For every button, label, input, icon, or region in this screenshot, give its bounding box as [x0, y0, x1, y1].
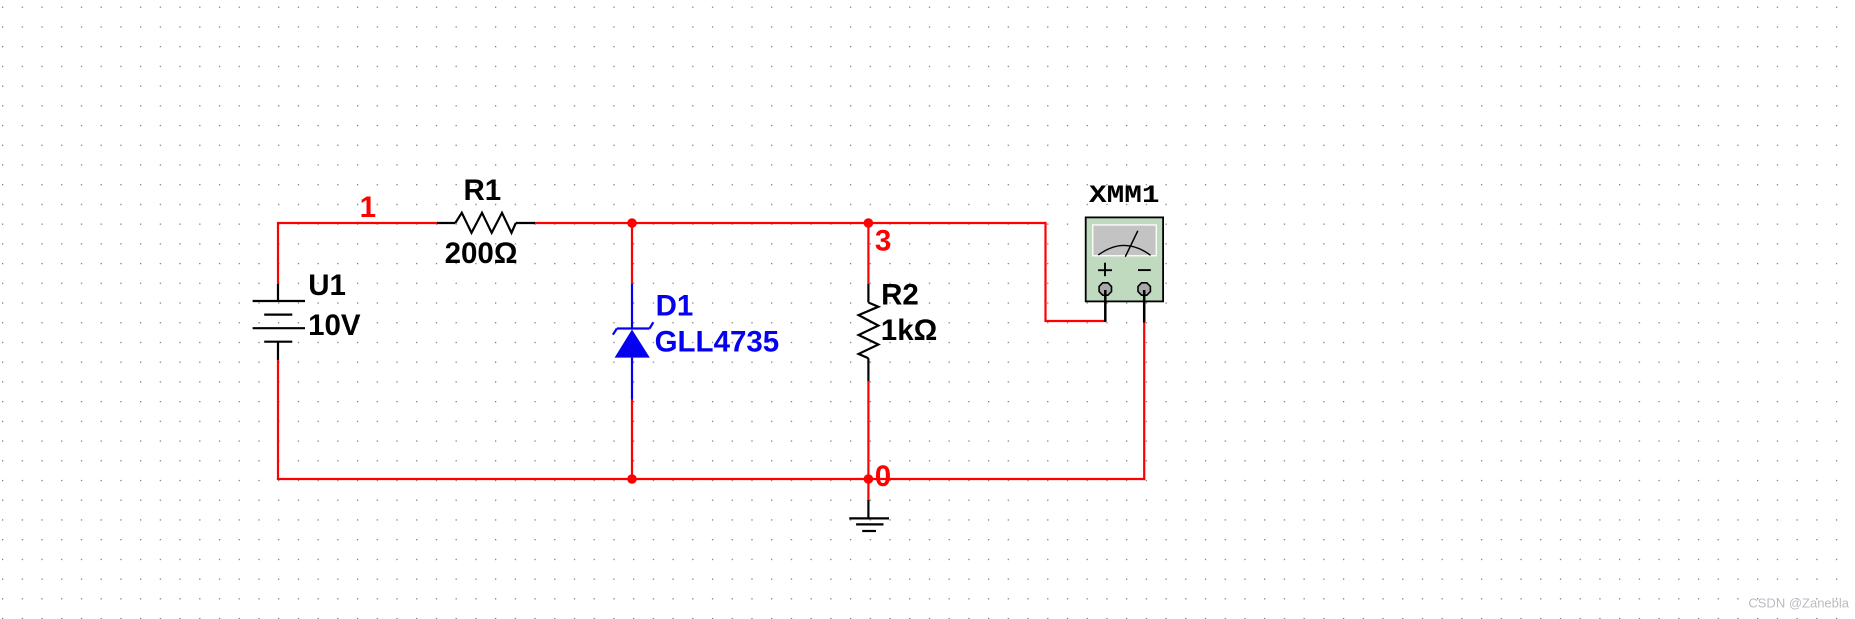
XMM1 minus pin stub	[1143, 290, 1146, 323]
R2 top lead	[867, 284, 869, 303]
battery plate long top	[253, 300, 305, 302]
ground bar 3	[862, 530, 876, 532]
battery bottom pin	[277, 342, 279, 360]
XMM1 plus terminal	[1099, 283, 1150, 295]
svg-text:200Ω: 200Ω	[445, 237, 518, 270]
XMM1 plus sign	[1098, 263, 1112, 277]
D1 top pin blue	[631, 284, 633, 329]
D1 cathode bar	[617, 327, 650, 329]
battery plate short bottom	[264, 341, 292, 343]
multimeter XMM1 body	[1086, 217, 1163, 301]
resistor R1	[437, 213, 535, 233]
R2 zigzag	[859, 303, 879, 359]
D1 cathode right tail	[650, 322, 654, 328]
junction dot D1 bottom	[627, 474, 637, 484]
ground bar 1	[849, 517, 889, 519]
wire: bottom horizontal net 0	[277, 478, 1145, 480]
battery U1	[253, 284, 305, 360]
junction dot node1/D1 top	[627, 218, 637, 228]
battery top pin	[277, 284, 279, 301]
zener diode D1	[613, 284, 653, 400]
R1 zigzag	[455, 213, 516, 233]
wire: ground stub red	[867, 479, 869, 500]
wire: D1 branch lower red	[631, 400, 633, 480]
XMM1 meter arc	[1098, 245, 1150, 255]
svg-text:0: 0	[875, 460, 891, 493]
R1 left lead	[437, 222, 455, 224]
XMM1 plus pin stub	[1104, 290, 1107, 322]
wire: R2 branch lower red	[867, 381, 869, 479]
svg-text:R1: R1	[464, 174, 502, 207]
D1 bottom pin blue	[631, 358, 633, 400]
svg-text:U1: U1	[308, 269, 346, 302]
svg-text:CSDN @Zanebla: CSDN @Zanebla	[1748, 596, 1849, 611]
wire: top horizontal net 1 from battery to R1 left lead	[278, 222, 438, 224]
XMM1 minus terminal	[1138, 283, 1150, 295]
ground stub	[867, 500, 869, 518]
svg-text:1kΩ: 1kΩ	[881, 314, 937, 347]
wire: left vertical battery top	[277, 222, 279, 284]
battery plate long	[253, 327, 305, 329]
wire: top horizontal from R1 right lead to corner above XMM	[534, 222, 1046, 224]
battery plate short	[264, 314, 292, 316]
svg-text:1: 1	[360, 191, 376, 224]
XMM1 display gray screen	[1093, 226, 1155, 256]
svg-text:XMM1: XMM1	[1089, 181, 1160, 210]
wire: left vertical battery bottom	[277, 360, 279, 480]
svg-text:3: 3	[875, 224, 891, 257]
XMM1 meter needle	[1125, 231, 1138, 257]
wire: R2 branch upper red	[867, 223, 869, 284]
R1 right lead	[516, 222, 535, 224]
svg-text:D1: D1	[656, 290, 694, 323]
ground bar 2	[856, 523, 883, 525]
D1 anode triangle	[615, 330, 650, 358]
wire: D1 branch upper red	[631, 223, 633, 284]
resistor R2	[859, 284, 879, 381]
XMM1 minus sign	[1138, 269, 1151, 271]
R2 bottom lead	[867, 358, 869, 381]
wire: XMM minus lead vertical red	[1143, 322, 1145, 480]
ground	[849, 500, 889, 531]
XMM1 display white frame	[1092, 224, 1157, 256]
svg-text:GLL4735: GLL4735	[655, 325, 780, 358]
svg-text:10V: 10V	[308, 309, 361, 342]
wire: XMM plus lead vertical red	[1046, 222, 1107, 321]
junction dot node3 top	[864, 218, 874, 228]
svg-text:R2: R2	[881, 279, 919, 312]
junction dot node0 ground	[864, 474, 874, 484]
D1 cathode left tail	[613, 329, 617, 335]
